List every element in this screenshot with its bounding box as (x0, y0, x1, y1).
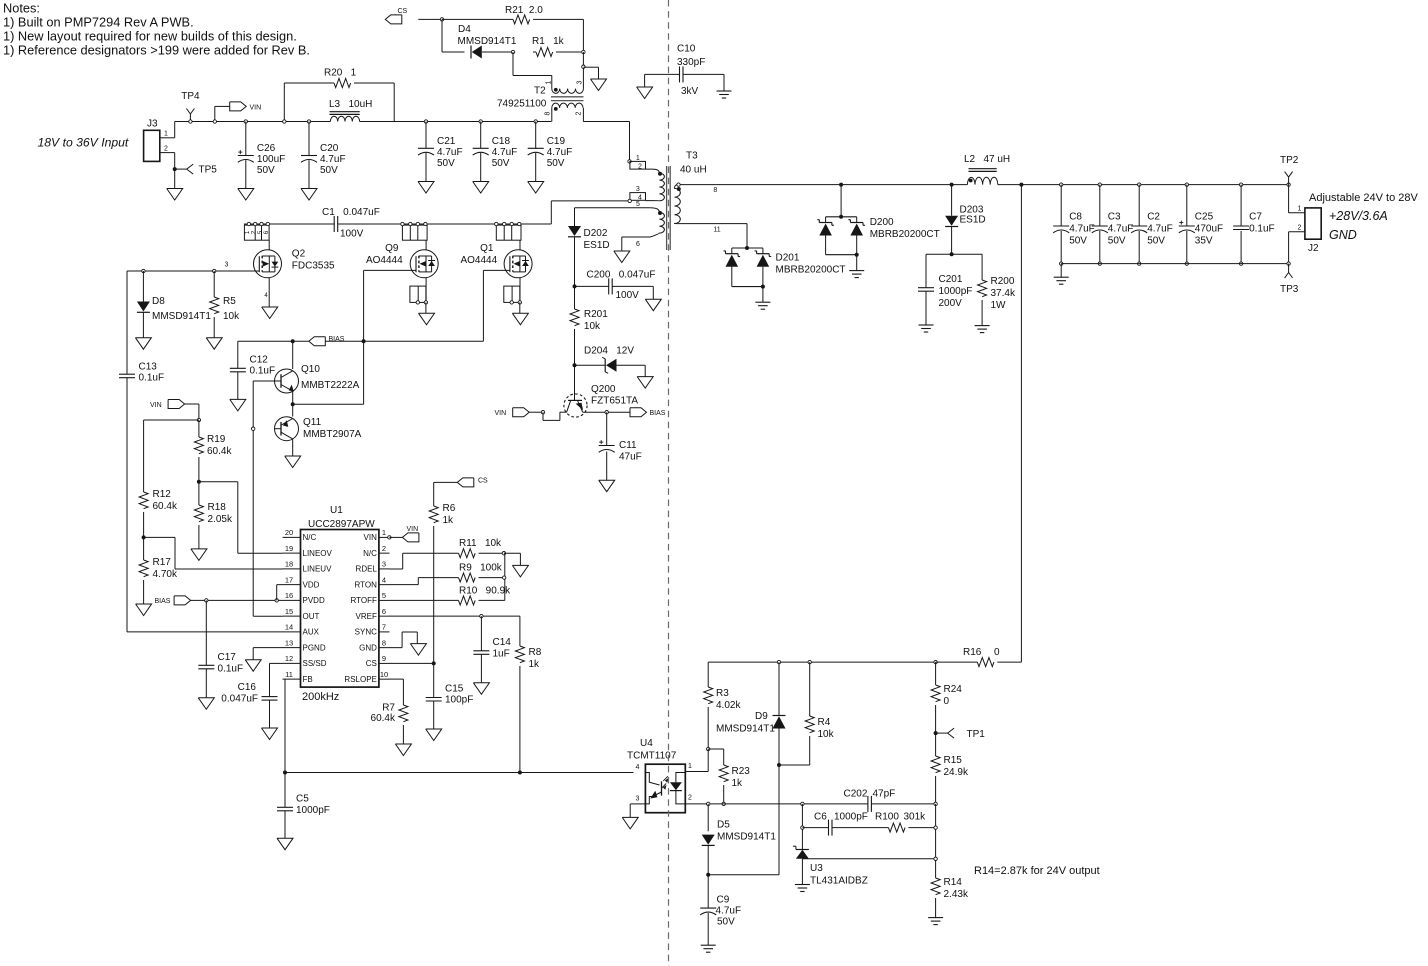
inductor L3 10uH (329, 99, 372, 122)
capacitor C26 100uF 50V (238, 120, 285, 200)
svg-text:C13: C13 (139, 362, 158, 373)
node D9 top circle (777, 660, 780, 663)
svg-text:R16: R16 (963, 647, 982, 658)
node C200 junction (573, 284, 577, 288)
svg-text:5: 5 (382, 591, 386, 600)
svg-text:TP2: TP2 (1280, 155, 1299, 166)
svg-text:2: 2 (1298, 225, 1302, 232)
svg-text:11: 11 (285, 670, 293, 679)
svg-text:R14: R14 (944, 877, 963, 888)
resistor R100 301k (875, 812, 926, 833)
svg-text:0: 0 (944, 696, 950, 707)
svg-text:C12: C12 (250, 355, 269, 366)
wire junction down to D4 row (441, 19, 443, 52)
node R19/R18 junction (197, 480, 201, 484)
resistor R11 10k (459, 538, 503, 558)
resistor R7 60.4k (371, 703, 408, 745)
svg-text:RSLOPE: RSLOPE (344, 675, 376, 684)
svg-text:24.9k: 24.9k (944, 767, 969, 778)
net flag BIAS (PVDD) (155, 596, 191, 605)
svg-text:R4: R4 (818, 717, 831, 728)
svg-text:R5: R5 (223, 296, 236, 307)
wire C10 left to ground drop (645, 73, 680, 75)
svg-text:C6: C6 (814, 812, 827, 823)
wire VIN to Q200 base-left with jog (529, 411, 543, 413)
svg-text:20: 20 (285, 528, 293, 537)
ground (earth) below C201 (919, 324, 934, 326)
pin 5 RTOFF of U1 (379, 599, 390, 601)
capacitor C20 4.7uF 50V (301, 120, 346, 200)
svg-text:C5: C5 (296, 794, 309, 805)
svg-text:Q1: Q1 (480, 243, 494, 254)
pin 2 of J3 (160, 152, 170, 154)
svg-text:SS/SD: SS/SD (303, 659, 327, 668)
svg-text:7: 7 (382, 623, 386, 632)
wire junction to T2 pin1 lead (512, 52, 514, 76)
svg-text:16: 16 (285, 591, 293, 600)
node D200 rail junction (839, 183, 843, 187)
capacitor C8 4.7uF 50V (1053, 183, 1095, 265)
transformer T3 winding B (pins 5-6) (622, 208, 665, 237)
ground (triangle) below C17 (198, 698, 214, 710)
wire pin5 to R10 (390, 599, 459, 601)
svg-text:100V: 100V (340, 229, 364, 240)
diode D5 MMSD914T1 (702, 804, 777, 875)
wire sense line down to R16 (1020, 185, 1022, 662)
wire junction jog to LINEUV (144, 536, 175, 538)
ground (earth) output bottom (1054, 276, 1069, 278)
net flag VIN (input rail) (215, 102, 261, 122)
svg-text:CS: CS (478, 478, 488, 485)
svg-text:R15: R15 (944, 755, 963, 766)
svg-text:TL431AIDBZ: TL431AIDBZ (810, 876, 868, 887)
wire U4 pin3 to ground (630, 803, 645, 805)
node Q11 base tap (252, 427, 255, 430)
svg-text:R6: R6 (443, 503, 456, 514)
svg-text:40 uH: 40 uH (680, 165, 707, 176)
svg-text:ES1D: ES1D (584, 240, 610, 251)
capacitor C12 0.1uF (230, 341, 275, 399)
transistor Q9 AO4444 (366, 240, 438, 278)
svg-text:C7: C7 (1249, 212, 1262, 223)
wire U4 pin2 row (685, 803, 868, 805)
resistor R9 100k (459, 563, 503, 583)
svg-text:50V: 50V (1069, 236, 1087, 247)
wire J2 pin2 to bottom rail (1289, 231, 1305, 233)
svg-text:GND: GND (1329, 228, 1357, 242)
net flag BIAS (Q200) (630, 408, 666, 417)
resistor R201 10k (570, 286, 608, 365)
svg-text:BIAS: BIAS (650, 410, 666, 417)
svg-text:ES1D: ES1D (960, 214, 986, 225)
svg-text:C2: C2 (1147, 212, 1160, 223)
pin 18 LINEUV of U1 (283, 568, 301, 570)
ground (triangle) below C11 (599, 480, 615, 492)
svg-text:R14=2.87k for 24V output: R14=2.87k for 24V output (974, 865, 1100, 877)
svg-text:R12: R12 (153, 489, 172, 500)
svg-text:AO4444: AO4444 (460, 255, 497, 266)
ground (triangle) U1 GND pin (410, 644, 426, 656)
svg-text:0.1uF: 0.1uF (139, 373, 165, 384)
svg-text:2: 2 (382, 544, 386, 553)
capacitor C13 0.1uF (119, 271, 164, 632)
wire VIN to R19 node (185, 403, 199, 405)
node R15 bottom circle (934, 802, 937, 805)
ground (triangle) T3 pin6 (614, 251, 630, 263)
pin 8 GND of U1 (379, 647, 390, 649)
pin 1 VIN of U1 (379, 536, 390, 538)
svg-text:6: 6 (382, 607, 386, 616)
capacitor C19 4.7uF 50V (528, 120, 573, 193)
svg-text:3: 3 (636, 186, 640, 193)
svg-text:J3: J3 (147, 119, 158, 130)
svg-text:BIAS: BIAS (155, 598, 171, 605)
pin number 3 of T2 (577, 80, 584, 84)
wire C10 right to earth (683, 73, 724, 75)
svg-text:AUX: AUX (303, 628, 320, 637)
diode D201 MBRB20200CT (dual schottky) (724, 246, 846, 289)
pin box T3 pins 3/4 (628, 186, 646, 202)
ground (triangle) D204 (637, 377, 653, 389)
svg-text:4.7uF: 4.7uF (1108, 224, 1134, 235)
pin 2 N/C of U1 (379, 552, 390, 554)
svg-text:U1: U1 (330, 505, 343, 516)
wire Q1 to ground (519, 302, 521, 313)
node R20 left junction (283, 120, 286, 123)
node D203 rail junction (950, 183, 954, 187)
svg-text:VREF: VREF (356, 612, 377, 621)
shunt regulator U3 TL431AIDBZ (793, 846, 868, 886)
zener diode D204 12V (575, 346, 646, 377)
svg-text:C26: C26 (257, 143, 276, 154)
net flag VIN (U1 pin1) (388, 526, 419, 542)
wire D204 junction down to Q200 base (574, 365, 576, 400)
svg-text:C200 0.047uF: C200 0.047uF (587, 270, 656, 281)
transformer T2 bottom winding (pins 8-2) (552, 103, 583, 111)
capacitor C5 1000pF (277, 773, 330, 839)
net flag BIAS (driver) (309, 336, 345, 346)
svg-text:R23: R23 (732, 766, 751, 777)
wire T2 pin2 lead down and right (582, 108, 584, 122)
node VIN junction on rail (213, 120, 216, 123)
svg-text:2: 2 (638, 163, 642, 170)
transistor Q2 FDC3535 (254, 240, 336, 278)
svg-text:MBRB20200CT: MBRB20200CT (776, 265, 846, 276)
svg-text:C8: C8 (1069, 212, 1082, 223)
svg-text:10k: 10k (584, 321, 601, 332)
ground (earth) below D200 (849, 270, 864, 272)
net flag VIN (R19 divider) (150, 400, 185, 410)
svg-text:50V: 50V (1108, 236, 1126, 247)
ground (triangle) below TP5 (167, 189, 183, 201)
pin 13 PGND of U1 (283, 647, 301, 649)
node emitter junction (291, 402, 295, 406)
svg-text:R9 100k: R9 100k (459, 563, 503, 574)
transistor Q10 MMBT2222A (275, 364, 360, 393)
svg-text:BIAS: BIAS (329, 336, 345, 343)
svg-text:R24: R24 (944, 684, 963, 695)
svg-text:N/C: N/C (303, 533, 317, 542)
node R100 row circle (934, 826, 937, 829)
resistor R23 1k (719, 765, 750, 804)
svg-text:1: 1 (164, 131, 168, 138)
diode D4 MMSD914T1 (458, 24, 517, 59)
svg-text:D204 12V: D204 12V (584, 346, 634, 357)
svg-text:R11 10k: R11 10k (459, 538, 502, 549)
capacitor C7 0.1uF (1233, 183, 1275, 265)
svg-text:FDC3535: FDC3535 (292, 261, 335, 272)
node D5 top circle (707, 802, 710, 805)
resistor R24 0 (931, 662, 962, 733)
wire T2 pin8 to input rail (551, 108, 553, 122)
svg-text:L3 10uH: L3 10uH (329, 99, 372, 110)
pin number 2 of T2 (576, 111, 583, 115)
svg-text:GND: GND (359, 643, 377, 652)
svg-text:4.70k: 4.70k (153, 569, 178, 580)
resistor R10 90.9k (459, 586, 512, 605)
svg-text:Notes:: Notes: (3, 1, 40, 16)
wire T3 pin11 lead (677, 223, 747, 225)
op-amp U1 UCC2897APW body (301, 505, 379, 687)
svg-text:18: 18 (285, 560, 293, 569)
svg-text:1uF: 1uF (493, 649, 510, 660)
capacitor C14 1uF (473, 616, 511, 683)
svg-text:C11: C11 (619, 440, 637, 451)
svg-text:60.4k: 60.4k (371, 713, 396, 724)
pin 12 SS/SD of U1 (283, 662, 301, 664)
svg-text:11: 11 (713, 227, 720, 234)
pin 10 RSLOPE of U1 (379, 678, 390, 680)
svg-text:SYNC: SYNC (355, 628, 377, 637)
svg-text:R100: R100 (875, 812, 899, 823)
wire feedback top rail (708, 661, 935, 663)
svg-text:Adjustable 24V to 28V: Adjustable 24V to 28V (1309, 192, 1419, 204)
svg-text:2.05k: 2.05k (208, 514, 233, 525)
ground (earth) below R200 (975, 325, 990, 327)
svg-text:14: 14 (285, 623, 293, 632)
svg-text:3: 3 (636, 796, 640, 803)
ground (earth) below C9 (701, 944, 716, 946)
node junction R1/R21 right (582, 50, 585, 53)
svg-text:4.7uF: 4.7uF (437, 147, 463, 158)
resistor R16 0 (934, 647, 1022, 667)
svg-text:C16: C16 (238, 682, 257, 693)
wire R10 right (479, 599, 505, 601)
svg-text:FZT651TA: FZT651TA (591, 396, 638, 407)
node U3 row circle (934, 857, 937, 860)
wire CS to R6 vertical (434, 481, 458, 483)
svg-text:3: 3 (577, 80, 584, 84)
wire D200 to earth (856, 255, 858, 271)
svg-text:1) Built on PMP7294 Rev A PWB.: 1) Built on PMP7294 Rev A PWB. (3, 15, 194, 30)
svg-text:4.02k: 4.02k (716, 700, 741, 711)
svg-text:2: 2 (688, 795, 692, 802)
wire FB pin11 down (284, 679, 286, 772)
svg-text:OUT: OUT (303, 612, 320, 621)
svg-text:1: 1 (546, 80, 553, 84)
svg-text:C18: C18 (492, 136, 511, 147)
svg-text:4.7uF: 4.7uF (320, 154, 346, 165)
node D8 tap (142, 269, 145, 272)
capacitor C201 1000pF 200V (918, 274, 972, 325)
svg-text:C202: C202 (844, 789, 868, 800)
ground (triangle) U4 pin3 (622, 817, 638, 829)
wire R21 to corner, down to R1 row (533, 18, 583, 20)
connector J2 (1305, 208, 1321, 254)
wire T3 pin11 down to D201 (746, 224, 748, 248)
node FB junction dot (283, 771, 287, 775)
svg-text:PVDD: PVDD (303, 596, 325, 605)
wire down to T3 pins 1/2 (629, 122, 631, 162)
svg-text:1: 1 (636, 155, 640, 162)
wire drain rail (C1 rail) left segment (244, 223, 334, 225)
node C6 row circle (801, 826, 804, 829)
wire pin6 VREF row (390, 615, 520, 617)
wire C13 vertical to AUX pin (127, 631, 283, 633)
node TP3 junction (1287, 262, 1290, 265)
svg-text:TP3: TP3 (1280, 284, 1299, 295)
node D9/R4 junction (777, 763, 781, 767)
svg-text:100uF: 100uF (257, 154, 285, 165)
svg-text:R19: R19 (207, 434, 226, 445)
transformer T2 749251100 top winding (pins 1-3) (552, 88, 584, 94)
node pin8 circle (677, 183, 680, 186)
net flag CS (R6 top) (457, 478, 488, 487)
node R3/R23/U4pin1 junction (707, 747, 710, 750)
svg-text:TP5: TP5 (199, 165, 218, 176)
wire output rail from L2 to caps (998, 184, 1289, 186)
svg-text:CS: CS (366, 659, 377, 668)
wire rail to J2 pin1 (1288, 185, 1290, 213)
ground (triangle) below C15 (426, 729, 442, 741)
wire R1 right to vertical (533, 51, 536, 53)
wire U3 anode row to R14 column (802, 858, 935, 860)
svg-text:U3: U3 (810, 863, 823, 874)
svg-text:1000pF: 1000pF (834, 812, 868, 823)
svg-text:D201: D201 (776, 253, 800, 264)
svg-text:C21: C21 (437, 136, 456, 147)
capacitor C10 330pF 3kV (677, 44, 705, 98)
svg-text:3: 3 (382, 560, 386, 569)
ground (earth) below R14 (928, 917, 943, 919)
svg-text:VIN: VIN (250, 105, 262, 112)
wire right vertical of R group and ground step (504, 553, 506, 600)
node output sense junction (1019, 183, 1023, 187)
resistor R5 10k (210, 271, 240, 338)
svg-text:2.43k: 2.43k (944, 889, 969, 900)
pin number 1 of T2 (546, 80, 553, 84)
svg-text:R3: R3 (716, 688, 729, 699)
pin 17 VDD of U1 (283, 584, 301, 586)
svg-text:VIN: VIN (495, 410, 507, 417)
svg-text:C201: C201 (939, 274, 963, 285)
ground (triangle) at T2 pin3 (591, 79, 607, 91)
svg-text:VIN: VIN (150, 402, 162, 409)
resistor R200 37.4k 1W (978, 276, 1016, 326)
svg-text:50V: 50V (437, 158, 455, 169)
svg-text:Q9: Q9 (385, 243, 399, 254)
pin 9 CS of U1 (379, 662, 390, 664)
ground (triangle) below Q11 (285, 456, 301, 468)
svg-text:Q2: Q2 (292, 249, 306, 260)
capacitor C202 47pF (844, 789, 936, 812)
svg-text:17: 17 (285, 575, 293, 584)
capacitor C6 1000pF (814, 812, 868, 836)
svg-text:10k: 10k (818, 729, 835, 740)
svg-text:4: 4 (636, 764, 640, 771)
svg-text:50V: 50V (257, 165, 275, 176)
svg-text:0.1uF: 0.1uF (250, 366, 276, 377)
svg-text:200kHz: 200kHz (302, 691, 339, 703)
pin box below Q9 source (410, 286, 428, 304)
svg-text:PGND: PGND (303, 643, 326, 652)
svg-text:10: 10 (380, 670, 388, 679)
wire PGND pin13 to ground (253, 647, 282, 649)
node R19 top junction (197, 418, 200, 421)
wire T3 pin8 to output rail (677, 184, 967, 186)
net flag VIN (Q200) (495, 408, 530, 417)
svg-text:9: 9 (382, 654, 386, 663)
wire bottom rail to earth (1060, 264, 1062, 278)
svg-text:0.1uF: 0.1uF (218, 664, 244, 675)
resistor R14 2.43k (931, 877, 969, 918)
capacitor C11 47uF (599, 412, 642, 480)
svg-text:C15: C15 (445, 684, 464, 695)
node R11 right circle (502, 552, 505, 555)
wire R11 to right vertical (479, 552, 504, 554)
wire T3 pin6 to ground (621, 237, 623, 251)
wire junction to C201 (926, 253, 952, 255)
wire D9 vertical down to bottom rail (778, 765, 780, 875)
resistor R8 1k (515, 616, 541, 772)
ground (triangle) below R5 (206, 338, 222, 350)
svg-text:330pF: 330pF (677, 57, 705, 68)
wire drain rail right segment (338, 223, 552, 225)
wire C6 row (802, 827, 828, 829)
resistor R4 10k (779, 662, 835, 765)
ground (triangle) Q1 source (512, 313, 528, 325)
wire SS/SD pin12 to C16 (270, 662, 283, 664)
ground (triangle) Q2 source (262, 307, 278, 319)
svg-text:8: 8 (545, 111, 552, 115)
transistor Q11 MMBT2907A (275, 417, 362, 441)
pin 6 VREF of U1 (379, 615, 390, 617)
svg-text:10k: 10k (223, 311, 240, 322)
wire Q9 gate to bias vertical (364, 269, 416, 271)
svg-text:1: 1 (688, 763, 692, 770)
capacitor C15 100pF (426, 663, 474, 729)
wire pin8 GND step (390, 647, 403, 649)
svg-text:4.7uF: 4.7uF (492, 147, 518, 158)
wire vertical down to T2 pin3 and ground tap (582, 52, 584, 67)
wire junction to R23 (708, 748, 724, 750)
wire pin9 CS to R6 vertical (390, 662, 434, 664)
svg-text:8: 8 (382, 638, 386, 647)
wire R15 column between rows (935, 804, 937, 878)
svg-text:0: 0 (994, 647, 1000, 658)
wire ground step (583, 66, 598, 68)
resistor R19 60.4k (194, 420, 232, 482)
node C17 tap circle (205, 599, 208, 602)
svg-text:4.7uF: 4.7uF (716, 906, 742, 917)
resistor R20 1 (bridging L3) (284, 68, 394, 122)
node BIAS junction at gate vertical (362, 339, 366, 343)
svg-text:VIN: VIN (407, 526, 419, 533)
ground (triangle) right of C200 (645, 299, 661, 311)
pin 11 FB of U1 (283, 678, 301, 680)
svg-text:FB: FB (303, 675, 313, 684)
wire Q1 gate down to BIAS rail (483, 269, 509, 271)
